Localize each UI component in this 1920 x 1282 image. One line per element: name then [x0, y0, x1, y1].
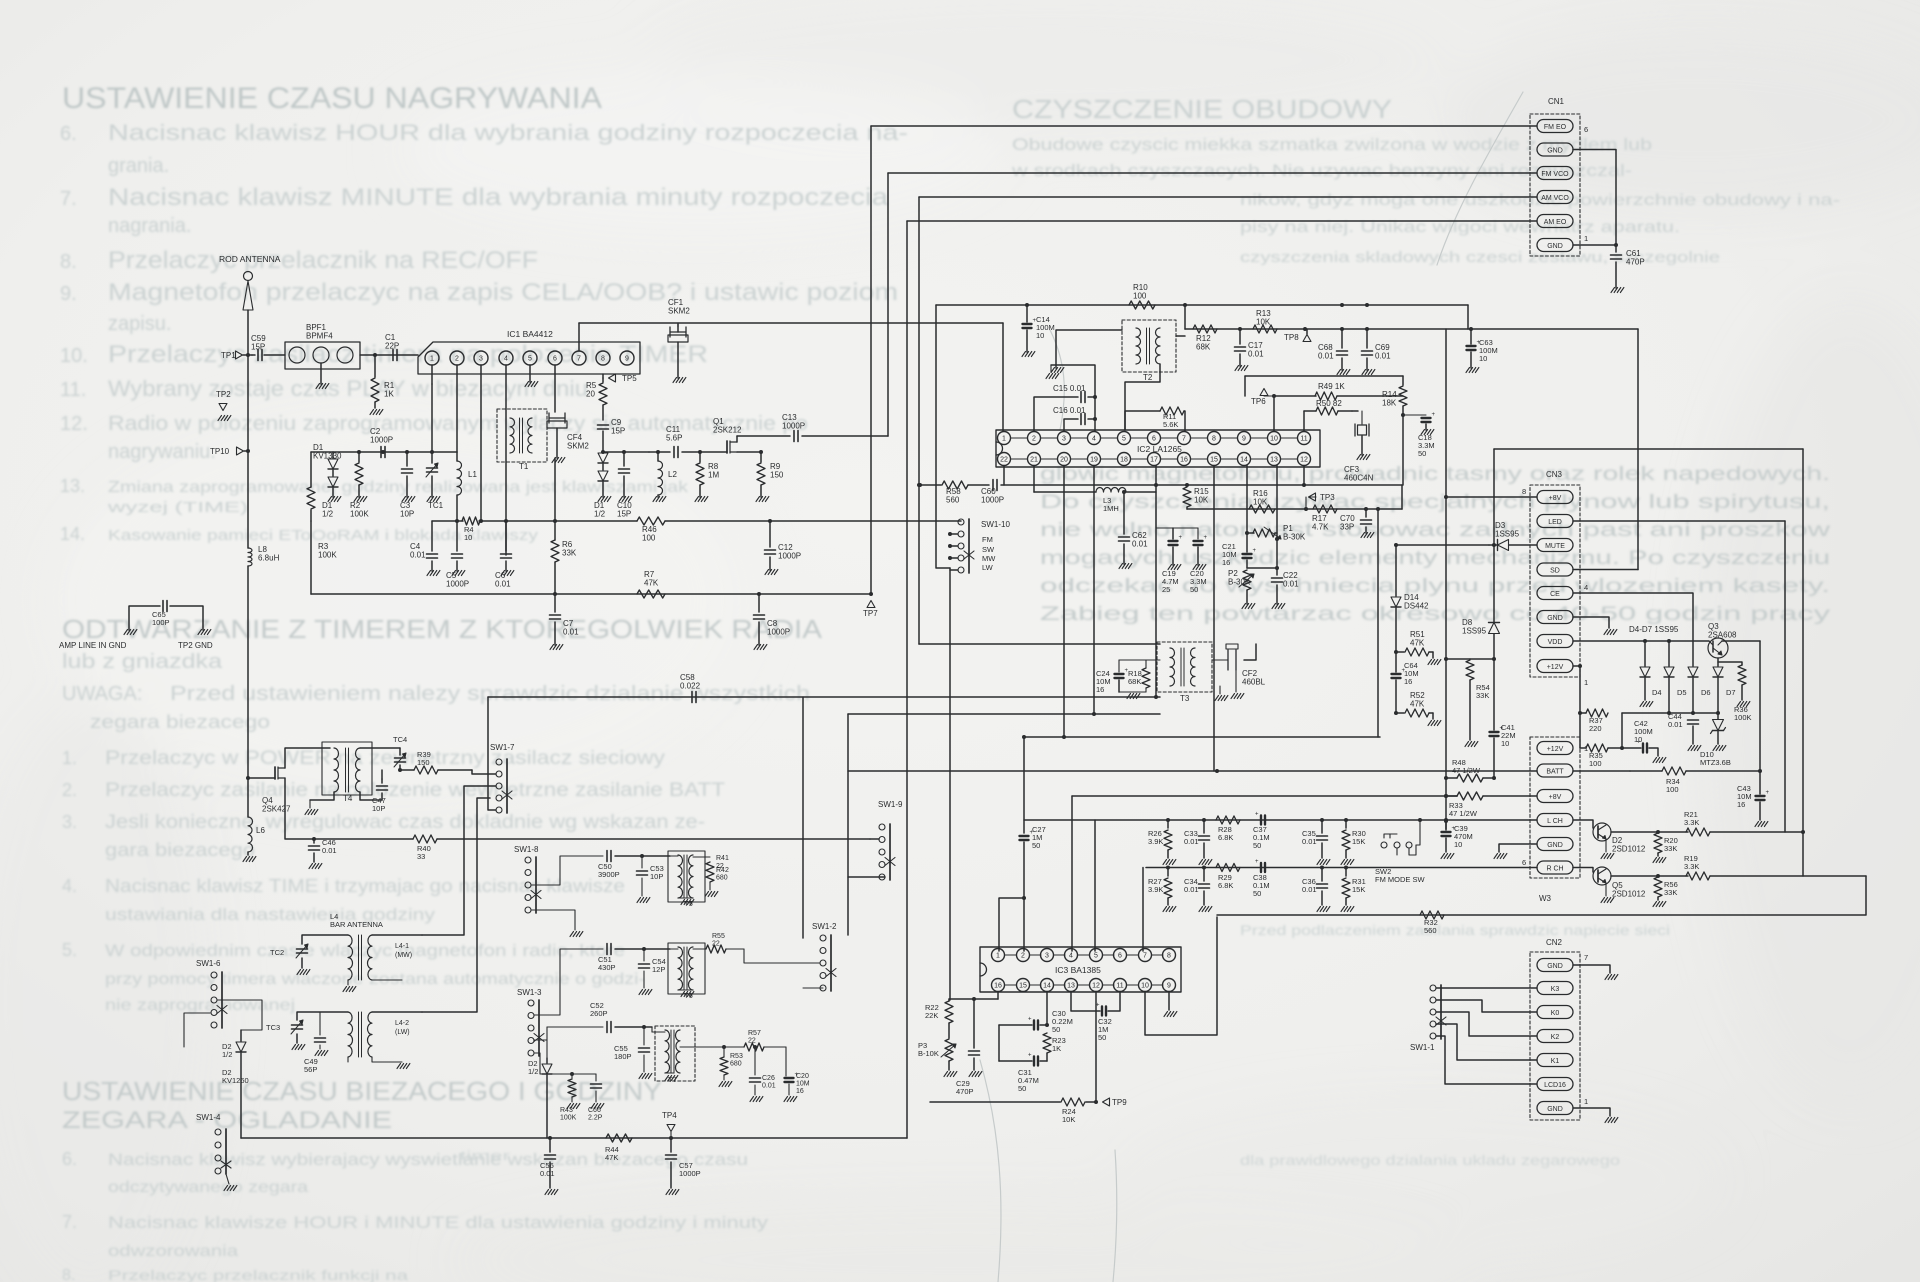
capacitor C4 0.01	[431, 521, 433, 551]
diode D6	[1688, 667, 1698, 677]
svg-text:VDD: VDD	[1548, 639, 1563, 646]
switch SW1-4	[215, 1129, 221, 1135]
svg-text:timer: timer	[460, 1148, 511, 1163]
svg-text:B-30K: B-30K	[1283, 533, 1306, 542]
svg-text:6.8K: 6.8K	[1218, 881, 1233, 890]
svg-text:9: 9	[1242, 436, 1246, 443]
paper crease marks	[980, 92, 1523, 1282]
capacitor C57 1000P	[670, 1138, 672, 1152]
svg-text:SW1-3: SW1-3	[517, 988, 542, 997]
svg-text:2: 2	[1021, 953, 1025, 960]
svg-text:50: 50	[1098, 1033, 1106, 1042]
capacitor C5 1000P	[456, 521, 458, 551]
filter BPF1 BPMF4	[285, 342, 360, 369]
wire SW1-10 links	[950, 533, 958, 535]
capacitor C1 22P	[392, 350, 394, 361]
resistor R48 47 1/2W	[1457, 774, 1483, 782]
capacitor C13 1000P	[737, 435, 790, 437]
svg-text:7: 7	[1143, 953, 1147, 960]
svg-text:7: 7	[577, 356, 581, 363]
ground below Q5 emitter	[1605, 883, 1607, 896]
svg-text:0.022: 0.022	[680, 682, 701, 691]
wire mute feed y545	[1396, 544, 1489, 546]
svg-text:10P: 10P	[372, 804, 385, 813]
svg-text:100: 100	[642, 534, 656, 543]
svg-text:6.: 6.	[60, 123, 77, 145]
test point TP7	[869, 592, 873, 596]
capacitor C30 0.22M 50	[1040, 992, 1047, 1026]
svg-text:D7: D7	[1726, 688, 1736, 697]
wire IC2 pin15 descender	[1213, 466, 1215, 772]
svg-text:2SA608: 2SA608	[1708, 631, 1737, 640]
wire power bus spare	[1215, 769, 1219, 773]
svg-text:47 1/2W: 47 1/2W	[1449, 809, 1478, 818]
svg-text:0.01: 0.01	[1668, 720, 1683, 729]
svg-text:0.01: 0.01	[1248, 350, 1264, 359]
capacitor C3 10P	[406, 452, 408, 466]
resistor R13 10K	[1253, 325, 1277, 333]
svg-text:AM EO: AM EO	[1544, 219, 1567, 226]
wire CN1 GND link	[1573, 150, 1616, 246]
wire CF2 out	[1244, 644, 1256, 660]
resistor R2 100K	[358, 452, 360, 462]
svg-text:D5: D5	[1677, 688, 1687, 697]
svg-text:15: 15	[1019, 983, 1027, 990]
capacitor C55 180P	[643, 1027, 645, 1045]
svg-text:5.6K: 5.6K	[1163, 420, 1178, 429]
wire SW1-1 to LCD16	[1436, 1036, 1537, 1084]
wire band switch riser x950	[949, 568, 951, 1000]
capacitor C15 0.01	[1034, 397, 1078, 431]
wire supply riser x936	[936, 305, 950, 568]
capacitor C20 3.3M 50	[1155, 509, 1157, 528]
ground below C53	[637, 898, 641, 903]
trimmer TC4	[360, 747, 400, 749]
svg-text:dla prawidlowego dzialania ukl: dla prawidlowego dzialania ukladu zegaro…	[1240, 1152, 1620, 1168]
svg-text:BPMF4: BPMF4	[306, 332, 333, 341]
capacitor C52 260P	[606, 1022, 608, 1033]
wire SW1-9 feed	[870, 838, 879, 840]
svg-text:C16 0.01: C16 0.01	[1053, 406, 1086, 415]
switch SW1-3	[528, 1000, 534, 1006]
ground below TC3 C49	[292, 1045, 296, 1050]
ground CN2 top	[1605, 975, 1609, 980]
capacitor C6 0.01	[505, 521, 507, 551]
resistor R8 1M	[699, 452, 701, 462]
svg-text:6.: 6.	[62, 1149, 77, 1169]
svg-text:16: 16	[1404, 677, 1412, 686]
svg-text:0.01: 0.01	[495, 580, 511, 589]
ground below C63	[1466, 368, 1470, 373]
wire bottom bus y594	[311, 593, 871, 595]
svg-text:GND: GND	[1547, 1106, 1563, 1113]
svg-text:680: 680	[716, 875, 728, 882]
resistor R36 100K	[1718, 662, 1742, 665]
svg-text:K1: K1	[1551, 1058, 1560, 1065]
svg-text:1/2: 1/2	[594, 510, 606, 519]
diode D4	[1644, 641, 1646, 666]
svg-text:Nacisnac klawisz wybierajacy w: Nacisnac klawisz wybierajacy wyswietlani…	[108, 1150, 748, 1169]
svg-text:6: 6	[1118, 953, 1122, 960]
svg-text:zapisu.: zapisu.	[108, 313, 171, 335]
svg-text:3.: 3.	[62, 812, 77, 832]
svg-text:nagrania.: nagrania.	[108, 215, 191, 237]
wire T2 top feed	[1176, 335, 1185, 337]
transistor Q2 2SD1012	[1593, 823, 1611, 841]
ground below R2	[354, 497, 358, 502]
capacitor C22 0.01	[1276, 539, 1278, 575]
svg-text:CN1: CN1	[1548, 97, 1565, 106]
ground below D1	[332, 488, 334, 497]
ground below C24 R18	[1119, 691, 1146, 693]
svg-text:180P: 180P	[614, 1052, 632, 1061]
svg-text:T3: T3	[1180, 694, 1190, 703]
resistor R16 10K	[1249, 505, 1275, 513]
wire det out y737	[1024, 736, 1380, 738]
wire FM RF node	[333, 451, 457, 453]
resistor R7 47K	[637, 590, 665, 598]
svg-text:ZEGARA - OGLADANIE: ZEGARA - OGLADANIE	[62, 1107, 392, 1134]
ground below R8	[695, 497, 699, 502]
resistor R11 5.6K	[1125, 411, 1160, 430]
svg-text:TP2 GND: TP2 GND	[178, 641, 213, 650]
wire R22 node y999	[949, 998, 998, 1000]
svg-text:18: 18	[1120, 457, 1128, 464]
svg-text:Nacisnac klawisze HOUR i MINUT: Nacisnac klawisze HOUR i MINUTE dla usta…	[108, 1213, 769, 1232]
capacitor C62 0.01	[1123, 492, 1125, 534]
ground below CF3	[1357, 455, 1361, 460]
wire IC1 pin3 lead	[480, 365, 482, 521]
svg-text:+: +	[1179, 535, 1183, 541]
svg-text:22P: 22P	[385, 342, 399, 351]
svg-text:+: +	[1028, 1017, 1032, 1023]
svg-text:KV1260: KV1260	[222, 1076, 249, 1085]
capacitor C44 0.01	[1688, 719, 1699, 721]
svg-text:2SK212: 2SK212	[713, 426, 742, 435]
wire IC2 pin20 descender	[1063, 466, 1065, 738]
svg-text:ustawiania dla nastawienia god: ustawiania dla nastawienia godziny	[105, 905, 436, 924]
svg-text:5: 5	[1122, 436, 1126, 443]
wire AM EO	[907, 220, 1537, 222]
wire TP6 riser	[1273, 396, 1275, 431]
switch SW1-6	[211, 972, 217, 978]
svg-text:10: 10	[1634, 735, 1642, 744]
resistor R24 10K	[1061, 1098, 1085, 1106]
svg-text:CN3: CN3	[1546, 470, 1563, 479]
ground below Q2 emitter	[1605, 839, 1607, 852]
resistor R21 3.3K	[1686, 828, 1710, 836]
wire BATT feed	[848, 770, 1537, 772]
test point TP4	[667, 1125, 675, 1132]
svg-text:12: 12	[1300, 457, 1308, 464]
svg-text:L6: L6	[256, 826, 265, 835]
capacitor C11 5.6P	[649, 451, 670, 453]
svg-text:68K: 68K	[1128, 677, 1141, 686]
svg-text:3.9K: 3.9K	[1148, 885, 1163, 894]
svg-text:nie zaprogramowanej: nie zaprogramowanej	[105, 997, 295, 1014]
svg-text:BATT: BATT	[1546, 768, 1564, 775]
svg-text:100K: 100K	[350, 510, 369, 519]
resistor R50 82	[1303, 411, 1305, 431]
svg-text:0.01: 0.01	[1375, 352, 1391, 361]
svg-text:6: 6	[1152, 436, 1156, 443]
svg-text:16: 16	[994, 983, 1002, 990]
svg-text:R CH: R CH	[1546, 865, 1563, 872]
svg-text:10K: 10K	[1062, 1115, 1075, 1124]
svg-text:2SD1012: 2SD1012	[1612, 890, 1646, 899]
ground below C69	[1362, 370, 1366, 375]
svg-text:IC2 LA1265: IC2 LA1265	[1137, 444, 1182, 454]
svg-text:SW: SW	[982, 545, 995, 554]
ground below C54	[639, 990, 643, 995]
inductor L3 1MH	[1033, 466, 1035, 493]
capacitor C63 100M 10	[1467, 305, 1469, 329]
svg-text:0.01: 0.01	[762, 1083, 776, 1090]
capacitor C66 2.2P	[595, 1074, 597, 1081]
transformer L4-2 LW winding	[348, 1012, 353, 1057]
capacitor C7 0.01	[554, 594, 556, 612]
svg-text:25: 25	[1162, 585, 1170, 594]
svg-text:1: 1	[1584, 1097, 1588, 1106]
transformer T4	[322, 742, 372, 795]
svg-text:T4: T4	[343, 794, 353, 803]
svg-text:50: 50	[1253, 889, 1261, 898]
svg-text:16: 16	[1096, 685, 1104, 694]
svg-text:15P: 15P	[617, 510, 631, 519]
svg-text:AM VCO: AM VCO	[1541, 195, 1569, 202]
svg-text:1000P: 1000P	[767, 628, 790, 637]
svg-text:4: 4	[1092, 436, 1096, 443]
svg-text:+: +	[1204, 535, 1208, 541]
svg-text:CN2: CN2	[1546, 938, 1563, 947]
ground W3	[1494, 854, 1498, 859]
wire C30 left riser	[998, 1025, 1000, 1061]
test point TP3	[1309, 493, 1316, 501]
svg-text:33K: 33K	[1664, 844, 1677, 853]
svg-text:odczytywanego zegara: odczytywanego zegara	[108, 1179, 308, 1196]
svg-text:4: 4	[504, 356, 508, 363]
svg-text:1.: 1.	[62, 748, 77, 768]
svg-text:D4-D7 1SS95: D4-D7 1SS95	[1629, 625, 1679, 634]
svg-text:DS442: DS442	[1404, 602, 1429, 611]
wire C58 riser to SW1-7	[488, 697, 496, 810]
svg-text:470P: 470P	[1626, 258, 1645, 267]
svg-text:C26: C26	[762, 1075, 775, 1082]
svg-text:33K: 33K	[1476, 691, 1489, 700]
svg-text:50: 50	[1190, 585, 1198, 594]
wire Q4 source row	[285, 778, 314, 839]
svg-text:20: 20	[1060, 457, 1068, 464]
capacitor C35 0.01	[1321, 820, 1323, 833]
svg-text:FM VCO: FM VCO	[1541, 171, 1569, 178]
wire T6 to SW1-2	[744, 949, 820, 963]
wire CN2 GND bottom	[1573, 1108, 1610, 1116]
svg-text:2.2P: 2.2P	[588, 1115, 603, 1122]
wire power riser x1760	[1759, 641, 1761, 794]
svg-text:SW1-4: SW1-4	[196, 1113, 221, 1122]
ground below R43	[567, 1104, 571, 1109]
capacitor C36 0.01	[1321, 868, 1323, 882]
inductor L2	[657, 452, 659, 461]
svg-text:L4-1: L4-1	[395, 943, 409, 950]
switch SW1-10	[958, 519, 964, 525]
wire R CH row	[1146, 867, 1537, 869]
resistor R30 15K	[1345, 820, 1347, 828]
wire mixer row y521	[432, 520, 463, 522]
svg-text:220: 220	[1589, 724, 1602, 733]
svg-text:nie wolno natomiast stosowac z: nie wolno natomiast stosowac zadnych pas…	[1040, 520, 1830, 541]
wire FM VCO	[888, 172, 1537, 174]
capacitor C51 430P	[606, 944, 608, 955]
wire LED link	[1573, 520, 1785, 522]
svg-text:9: 9	[1167, 983, 1171, 990]
svg-text:2SD1012: 2SD1012	[1612, 845, 1646, 854]
svg-text:47K: 47K	[1410, 700, 1425, 709]
resistor R55 22	[693, 948, 706, 950]
svg-text:0.01: 0.01	[540, 1169, 555, 1178]
svg-text:680: 680	[730, 1061, 742, 1068]
IC IC3 BA1385 body	[980, 947, 1181, 992]
wire am osc feed y644	[918, 485, 920, 644]
resistor R6 33K	[554, 458, 556, 540]
resistor R44 47K	[606, 1134, 632, 1142]
resistor R49 1K	[1274, 395, 1316, 397]
wire FM VCO riser x888	[887, 173, 889, 436]
ground below D10	[1713, 746, 1717, 751]
svg-text:TC2: TC2	[270, 948, 284, 957]
ground below C5	[452, 571, 456, 576]
svg-text:1000P: 1000P	[446, 580, 469, 589]
svg-text:K0: K0	[1551, 1010, 1560, 1017]
svg-text:5: 5	[1094, 953, 1098, 960]
svg-text:W3: W3	[1539, 894, 1552, 903]
capacitor C39 470M 10	[1442, 831, 1451, 833]
svg-text:1000P: 1000P	[782, 422, 805, 431]
capacitor C60 1000P	[968, 484, 989, 486]
ground below IC1 pin5	[529, 365, 531, 382]
wire audio row1 y820	[1094, 820, 1096, 951]
trimmer TC2	[302, 935, 348, 944]
svg-text:Nacisnac klawisz HOUR dla wybr: Nacisnac klawisz HOUR dla wybrania godzi…	[108, 120, 908, 145]
ground below C35	[1317, 860, 1321, 865]
zener D10 MTZ3.6B	[1717, 713, 1719, 719]
resistor R12 68K	[1193, 325, 1217, 333]
svg-text:50: 50	[1032, 841, 1040, 850]
wire C27 to IC3 pin2	[1023, 898, 1025, 951]
svg-text:100K: 100K	[318, 551, 337, 560]
ground below C34	[1199, 907, 1203, 912]
svg-text:1: 1	[430, 356, 434, 363]
svg-text:0.01: 0.01	[1302, 885, 1317, 894]
wire GND W3	[1499, 844, 1537, 852]
filter CF4 SKM2	[549, 417, 565, 419]
svg-text:R53: R53	[730, 1053, 743, 1060]
wire SD riser x1638	[1637, 329, 1639, 570]
resistor R4 10	[462, 517, 480, 525]
resistor R54 33K	[1446, 658, 1470, 660]
svg-text:19: 19	[1090, 457, 1098, 464]
svg-text:460C4N: 460C4N	[1344, 474, 1374, 483]
wire IC1 pin1 lead	[431, 365, 433, 384]
svg-text:FM EO: FM EO	[1544, 124, 1567, 131]
wire IC2 pin1 from top rail	[1002, 323, 1004, 431]
svg-text:3: 3	[479, 356, 483, 363]
svg-text:470P: 470P	[956, 1087, 974, 1096]
svg-text:Radio w polozeniu zaprogramowa: Radio w polozeniu zaprogramowanym wylacz…	[108, 413, 808, 435]
svg-text:22: 22	[748, 1038, 756, 1045]
svg-text:0.01: 0.01	[1283, 580, 1299, 589]
wire avc row y568	[1247, 567, 1277, 569]
svg-text:560: 560	[1424, 926, 1437, 935]
wire Q4 drain to T4	[285, 748, 330, 768]
resistor R23 1K	[1043, 1033, 1051, 1053]
svg-text:TP4: TP4	[662, 1111, 677, 1120]
svg-text:3: 3	[1045, 953, 1049, 960]
svg-text:16: 16	[1737, 800, 1745, 809]
capacitor C32 1M 50	[1071, 992, 1100, 1012]
svg-text:SW1-9: SW1-9	[878, 800, 903, 809]
svg-text:0.01: 0.01	[410, 551, 426, 560]
resistor R20 33K	[1654, 833, 1662, 853]
switch SW1-7	[496, 759, 502, 765]
svg-text:1000P: 1000P	[778, 552, 801, 561]
transformer T2	[1122, 320, 1176, 372]
svg-text:TC4: TC4	[393, 735, 407, 744]
wire GND link CN3	[1573, 617, 1609, 628]
svg-text:Jesli konieczne, wyregulowac c: Jesli konieczne, wyregulowac czas doklad…	[105, 812, 705, 833]
capacitor C24 10M 16	[1118, 660, 1120, 672]
wire SW1-9 common to x848	[848, 876, 885, 878]
ground left of T2	[1056, 330, 1122, 368]
resistor R32 560	[1420, 911, 1444, 919]
ground below LW winding	[397, 1064, 401, 1069]
wire SW1-8 to C50	[531, 856, 603, 885]
svg-text:8: 8	[1212, 436, 1216, 443]
ground below C70	[1361, 533, 1365, 538]
resistor R17 4.7K	[1313, 505, 1337, 513]
ground below C46	[309, 864, 313, 869]
transformer T7	[655, 1026, 695, 1081]
wire +8V feed x1446	[1445, 329, 1447, 829]
diode D2 1/2 b	[546, 1058, 548, 1063]
resistor R46 100	[637, 517, 665, 525]
wire +8V audio bus y796	[1072, 795, 1457, 797]
svg-text:47K: 47K	[605, 1153, 618, 1162]
transformer T6	[668, 943, 705, 994]
svg-text:GND: GND	[1547, 963, 1563, 970]
svg-text:T1: T1	[519, 462, 529, 471]
svg-text:TP7: TP7	[863, 609, 878, 618]
ground below C42	[1653, 758, 1657, 763]
svg-text:33P: 33P	[1340, 523, 1354, 532]
svg-text:12.: 12.	[60, 413, 88, 435]
diode D5	[1668, 641, 1670, 666]
inductor L6	[247, 778, 249, 817]
wire AM VCO riser x919	[918, 197, 920, 485]
svg-text:SW1-6: SW1-6	[196, 959, 221, 968]
svg-text:430P: 430P	[598, 963, 616, 972]
capacitor C8 1000P	[758, 594, 760, 612]
svg-text:czyszczenia skladowych czesci: czyszczenia skladowych czesci zestawu, s…	[1240, 249, 1720, 266]
ground below R56	[1653, 902, 1657, 907]
switch SW1-8	[525, 857, 531, 863]
wire SW1-6 links	[217, 1000, 262, 1012]
svg-text:1: 1	[1584, 234, 1588, 243]
capacitor C2 1000P	[380, 447, 382, 458]
svg-text:150: 150	[417, 758, 430, 767]
svg-text:6: 6	[1584, 125, 1588, 134]
capacitor C9 15P	[598, 424, 609, 426]
